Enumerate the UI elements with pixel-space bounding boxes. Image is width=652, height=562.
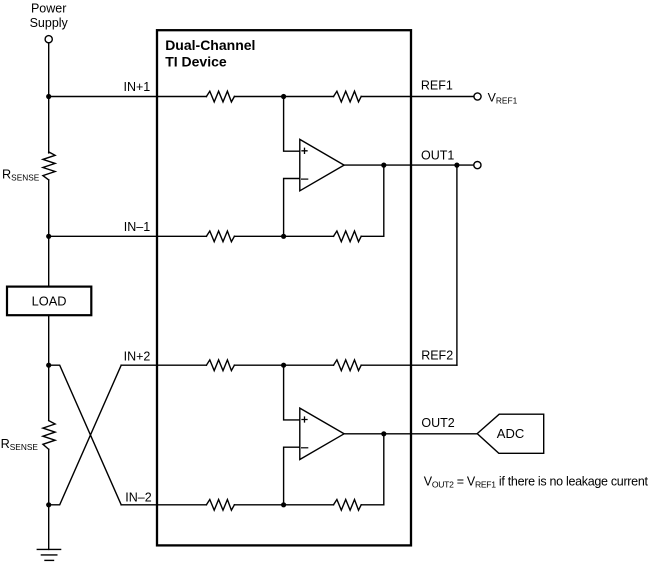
svg-text:Dual-Channel: Dual-Channel <box>165 37 255 53</box>
wire IN-1 left segment <box>49 235 207 237</box>
wire REF1 <box>361 96 474 98</box>
wire feedback ch2 vertical <box>383 434 385 505</box>
wire op-amp1 -input <box>284 179 300 237</box>
svg-text:REF1: REF1 <box>421 79 453 93</box>
svg-text:VREF1: VREF1 <box>488 90 518 105</box>
resistor feedback ch1 top <box>334 91 362 102</box>
wire cross diagonal bottom-to-IN+2 <box>49 365 122 505</box>
wire op-amp2 +input <box>284 365 300 420</box>
node op-amp2 +input tap <box>281 363 286 368</box>
wire REF2 mid segment <box>234 364 333 366</box>
wire resistor to node A <box>234 96 333 98</box>
wire IN-1 node to LOAD <box>48 236 50 285</box>
resistor input ch1 top <box>206 91 234 102</box>
resistor input ch2 bottom <box>206 500 234 511</box>
resistor input ch2 top <box>206 360 234 371</box>
node op-amp1 -input tap <box>281 234 286 239</box>
node op-amp2 -input tap <box>281 502 286 507</box>
resistor feedback ch1 bottom <box>334 231 362 242</box>
svg-text:REF2: REF2 <box>421 348 453 362</box>
svg-text:LOAD: LOAD <box>32 294 67 309</box>
node OUT1 external junction <box>454 163 459 168</box>
node IN+1 left junction <box>46 94 51 99</box>
op-amp U1 <box>300 139 344 190</box>
svg-text:IN–2: IN–2 <box>125 490 151 504</box>
svg-text:RSENSE: RSENSE <box>1 437 39 452</box>
ADC tag <box>477 414 544 453</box>
node RSENSE2 top junction <box>46 363 51 368</box>
wire RSENSE2 top lead <box>48 365 50 420</box>
svg-text:OUT2: OUT2 <box>421 416 454 430</box>
svg-text:IN+1: IN+1 <box>124 80 151 94</box>
node IN-1 left junction <box>46 234 51 239</box>
node op-amp2 output junction <box>381 431 386 436</box>
resistor RSENSE2 <box>43 421 55 450</box>
svg-text:IN–1: IN–1 <box>124 220 150 234</box>
wire op-amp1 output <box>344 164 474 166</box>
wire feedback ch1 vertical <box>383 165 385 236</box>
resistor feedback ch2 bottom <box>334 500 362 511</box>
svg-text:Supply: Supply <box>30 16 69 30</box>
terminal Power Supply <box>45 36 52 43</box>
svg-text:TI Device: TI Device <box>165 54 227 70</box>
op-amp U2 <box>300 408 344 459</box>
svg-text:RSENSE: RSENSE <box>2 167 40 182</box>
wire op-amp2 -input <box>284 447 300 505</box>
wire OUT1 to REF2 vertical <box>456 165 458 365</box>
node RSENSE2 bottom junction <box>46 502 51 507</box>
device box Dual-Channel TI Device <box>157 30 411 545</box>
svg-text:IN+2: IN+2 <box>124 349 151 363</box>
resistor feedback ch2 top <box>334 360 362 371</box>
wire feedback ch1 horizontal <box>361 235 384 237</box>
wire RSENSE1 to IN-1 node <box>48 180 50 236</box>
wire LOAD to IN+2 node <box>48 316 50 365</box>
wire cross diagonal top-to-IN-2 <box>49 365 122 505</box>
node A (op-amp1 +input tap) <box>281 94 286 99</box>
resistor input ch1 bottom <box>206 231 234 242</box>
wire op-amp2 output to ADC <box>344 433 477 435</box>
wire feedback ch2 horizontal <box>361 504 384 506</box>
svg-text:ADC: ADC <box>497 426 524 441</box>
resistor RSENSE1 <box>43 152 55 180</box>
wire IN-1 mid segment <box>234 235 333 237</box>
wire power supply to IN+1 node <box>48 43 50 97</box>
ground <box>37 548 60 550</box>
svg-text:Power: Power <box>31 2 66 16</box>
wire IN-2 mid segment <box>234 504 333 506</box>
terminal VREF1 <box>474 93 481 100</box>
wire RSENSE2 bottom lead <box>48 449 50 505</box>
wire IN+1 left segment <box>49 96 207 98</box>
svg-text:OUT1: OUT1 <box>421 149 454 163</box>
terminal OUT1 <box>474 162 481 169</box>
wire IN-2 left segment <box>121 504 206 506</box>
wire op-amp1 +input <box>284 97 300 152</box>
wire IN+1 node to RSENSE1 <box>48 97 50 153</box>
wire IN+2 <box>121 364 206 366</box>
svg-text:VOUT2 = VREF1 if there is no l: VOUT2 = VREF1 if there is no leakage cur… <box>424 475 649 490</box>
wire REF2 right segment <box>361 364 457 366</box>
LOAD box <box>7 287 91 316</box>
node op-amp1 output junction <box>381 163 386 168</box>
wire to ground <box>48 505 50 550</box>
